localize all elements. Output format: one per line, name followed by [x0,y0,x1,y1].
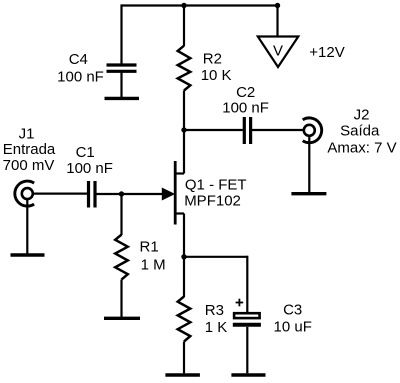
wire J1 to C1 [32,193,87,195]
wire top rail [122,4,278,6]
wire J2 to ground [308,136,310,192]
node C1/R1/gate junction [119,191,124,196]
resistor R2 [178,46,191,91]
ground under R3 [165,373,200,376]
svg-text:Saída: Saída [340,123,380,140]
svg-text:MPF102: MPF102 [184,192,241,209]
ground under R1 [104,317,140,320]
wire source stub [175,212,184,214]
svg-text:C3: C3 [283,302,302,319]
svg-text:10 uF: 10 uF [274,319,312,336]
wire R2 to FET drain column [183,91,185,174]
wire R1 branch down [120,194,122,235]
value label C3 [274,302,312,336]
wire junction to C3 [184,256,247,258]
wire C4 to ground [120,72,122,98]
value label C4 [57,51,104,86]
wire C3 to ground [246,327,248,373]
label Q1 FET MPF102 [184,176,246,209]
svg-text:Q1 - FET: Q1 - FET [185,176,247,193]
wire C3 branch down [246,256,248,312]
svg-text:J2: J2 [354,107,370,124]
wire C4 branch down from rail [120,4,122,63]
svg-text:C1: C1 [76,144,95,161]
svg-text:10 K: 10 K [201,67,232,84]
node rail/R2 junction [181,3,186,8]
capacitor C4 [107,65,137,71]
value label C2 [222,84,269,116]
transistor Q1 gate arrow [162,188,174,199]
label J2 Saida [327,107,396,157]
value label R1 [140,239,166,274]
wire R3 branch down [183,257,185,297]
wire R3 to ground [183,342,185,374]
wire drain junction to C2 [184,129,243,131]
transistor Q1 channel bar [174,161,177,225]
wire J1 to ground [26,199,28,254]
svg-text:R1: R1 [140,239,159,256]
svg-text:V: V [273,42,283,59]
svg-text:R2: R2 [203,50,222,67]
svg-text:1 M: 1 M [141,257,166,274]
label J1 Entrada 700 mV [3,125,56,174]
svg-text:Entrada: Entrada [3,141,56,158]
svg-text:100 nF: 100 nF [57,69,104,86]
value label R3 [205,302,228,336]
svg-text:Amax: 7 V: Amax: 7 V [327,140,396,157]
wire rail to R2 [183,6,185,47]
node source/R3/C3 junction [181,254,186,259]
ground under C3 [231,373,265,376]
node rail corner to V [275,3,280,8]
value label C1 [66,144,113,177]
power symbol V +12V [258,37,299,68]
wire drain stub [175,172,184,174]
svg-text:700 mV: 700 mV [3,157,55,174]
capacitor C3 [233,313,261,325]
svg-text:1 K: 1 K [205,319,228,336]
ground under C4 [105,97,140,100]
svg-text:100 nF: 100 nF [222,99,269,116]
connector J1 [15,181,34,206]
svg-text:J1: J1 [19,125,35,142]
svg-text:100 nF: 100 nF [66,160,113,177]
wire R1 to ground [120,280,122,317]
wire C2 to J2 [252,129,304,131]
svg-text:C4: C4 [69,51,88,68]
capacitor C3 plus sign [236,299,244,307]
wire source to junction [183,214,185,257]
node drain/C2 junction [181,127,186,132]
resistor R1 [115,235,128,280]
svg-text:+12V: +12V [309,44,344,61]
resistor R3 [178,297,191,342]
capacitor C1 [89,181,96,208]
ground under J1 [11,253,45,256]
connector J2 [303,118,322,143]
label +12V [309,44,344,61]
ground under J2 [291,192,326,195]
wire C1 to gate [97,193,164,195]
value label R2 [201,50,232,84]
wire V branch down from rail [276,6,278,38]
svg-text:R3: R3 [205,302,224,319]
capacitor C2 [244,117,250,144]
